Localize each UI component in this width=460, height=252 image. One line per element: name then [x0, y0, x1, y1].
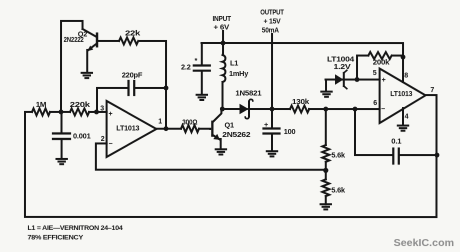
svg-text:300Ω: 300Ω	[182, 117, 197, 126]
svg-text:1M: 1M	[36, 100, 47, 109]
svg-text:+: +	[109, 111, 113, 118]
svg-text:+ 6V: + 6V	[214, 22, 230, 31]
svg-text:220pF: 220pF	[122, 70, 143, 79]
svg-text:L1: L1	[230, 59, 238, 68]
svg-text:1: 1	[158, 118, 162, 125]
svg-text:8: 8	[404, 73, 408, 80]
svg-text:78% EFFICIENCY: 78% EFFICIENCY	[27, 234, 83, 241]
svg-text:+: +	[382, 77, 386, 84]
svg-text:LT1013: LT1013	[116, 124, 139, 133]
svg-text:+ 15V: + 15V	[264, 17, 281, 26]
svg-text:50mA: 50mA	[262, 26, 280, 35]
svg-text:L1 = AIE—VERNITRON 24–104: L1 = AIE—VERNITRON 24–104	[27, 225, 123, 232]
svg-text:5.6k: 5.6k	[331, 185, 346, 194]
svg-text:1N5821: 1N5821	[235, 89, 261, 98]
svg-text:2N2222: 2N2222	[64, 35, 84, 44]
svg-text:SeekIC.com: SeekIC.com	[394, 238, 455, 249]
svg-text:Q1: Q1	[224, 120, 233, 129]
svg-text:5.6k: 5.6k	[331, 151, 346, 160]
svg-text:1mHy: 1mHy	[229, 69, 249, 78]
svg-text:5: 5	[373, 70, 377, 77]
svg-text:200k: 200k	[373, 58, 391, 67]
svg-text:−: −	[381, 106, 385, 113]
svg-text:100: 100	[284, 127, 296, 136]
svg-text:2N5262: 2N5262	[222, 130, 250, 139]
svg-text:2.2: 2.2	[181, 62, 191, 71]
svg-text:1.2V: 1.2V	[334, 62, 351, 71]
svg-text:3: 3	[100, 105, 104, 112]
svg-text:4: 4	[405, 113, 409, 120]
svg-text:−: −	[108, 141, 112, 148]
svg-text:22k: 22k	[125, 28, 141, 37]
svg-text:2: 2	[101, 136, 105, 143]
svg-text:*: *	[195, 56, 198, 65]
svg-text:7: 7	[430, 87, 434, 94]
svg-text:+: +	[264, 120, 268, 129]
svg-text:220k: 220k	[70, 100, 91, 109]
svg-text:0.001: 0.001	[73, 132, 91, 141]
svg-text:LT1013: LT1013	[390, 89, 412, 98]
svg-text:6: 6	[373, 100, 377, 107]
svg-text:OUTPUT: OUTPUT	[260, 7, 284, 16]
svg-text:0.1: 0.1	[391, 136, 401, 145]
svg-text:130k: 130k	[292, 97, 310, 106]
